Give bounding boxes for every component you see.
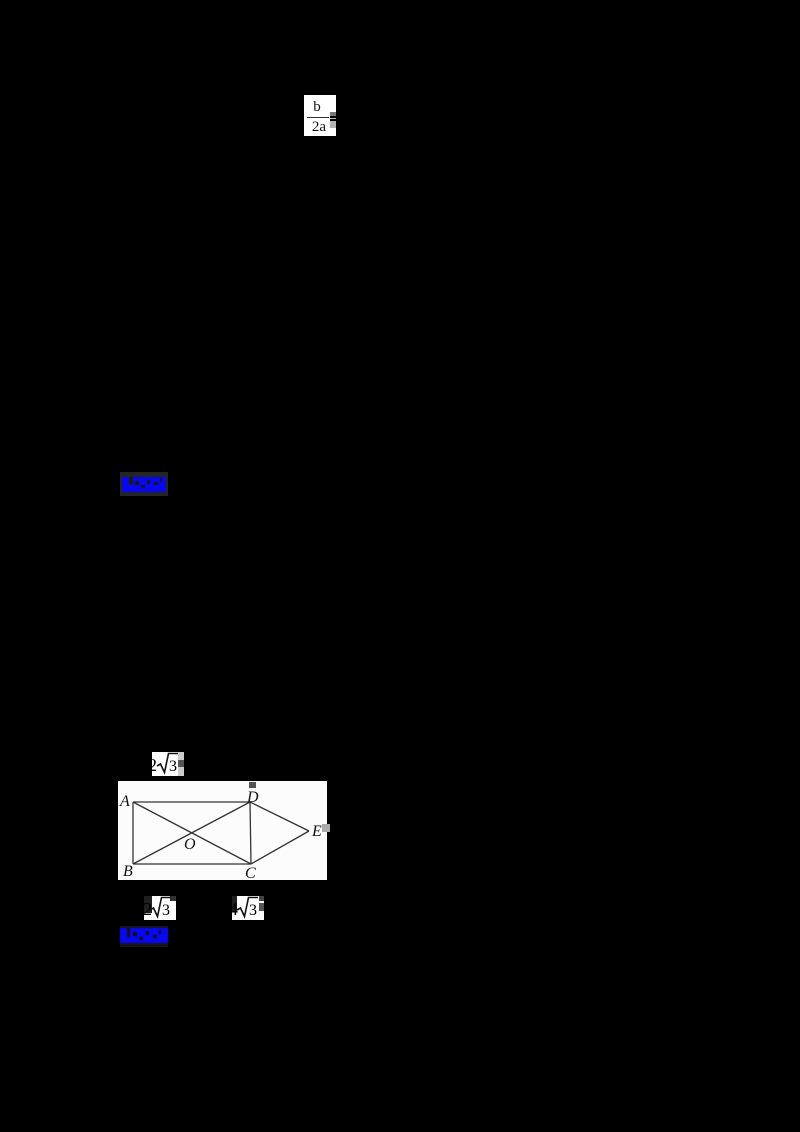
svg-text:2: 2 — [152, 755, 157, 775]
blue label 2 (highlighted analysis tag) — [120, 926, 168, 947]
artifact strip right of fraction — [330, 112, 336, 116]
svg-text:B: B — [123, 863, 133, 880]
svg-text:4: 4 — [232, 899, 238, 919]
wire A-B — [132, 802, 134, 864]
wire B-C — [133, 863, 251, 865]
svg-text:3: 3 — [162, 902, 170, 919]
svg-text:A: A — [119, 793, 130, 810]
artifact gray square right of E — [322, 824, 330, 832]
svg-text:3: 3 — [249, 902, 257, 919]
equation image 4*sqrt(3) lower right — [232, 896, 264, 920]
svg-text:E: E — [311, 823, 322, 840]
svg-text:C: C — [245, 865, 256, 880]
wire D-C — [250, 802, 251, 864]
geometry figure: rectangle ABCD with diagonals and point E — [118, 781, 330, 880]
wire A-C diagonal — [133, 802, 251, 864]
svg-text:D: D — [246, 789, 259, 806]
equation image 2*sqrt(3) upper — [152, 752, 184, 776]
equation image 2*sqrt(3) lower left — [144, 896, 176, 920]
svg-text:3: 3 — [169, 758, 177, 775]
equation image b/(2a) — [304, 95, 336, 136]
wire C-E — [251, 831, 309, 864]
wire B-D diagonal — [133, 802, 250, 864]
wire D-E — [250, 802, 309, 831]
wire A-D — [133, 801, 250, 803]
blue label 1 (highlighted answer tag) — [120, 472, 168, 496]
artifact gray square above D — [249, 782, 256, 788]
svg-text:O: O — [184, 836, 196, 853]
